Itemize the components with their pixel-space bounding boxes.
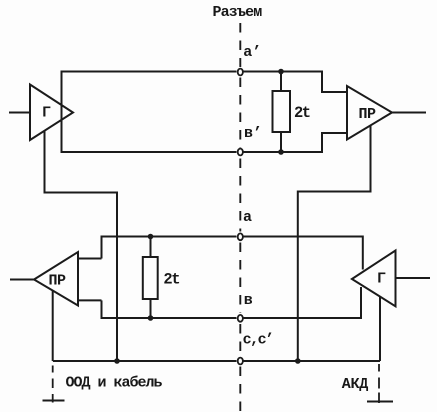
svg-text:Г: Г bbox=[377, 271, 386, 288]
svg-text:ПР: ПР bbox=[49, 273, 67, 290]
svg-text:ООД и кабель: ООД и кабель bbox=[66, 375, 163, 392]
svg-text:АКД: АКД bbox=[342, 376, 368, 393]
svg-text:в’: в’ bbox=[244, 125, 262, 142]
svg-text:Г: Г bbox=[42, 105, 51, 122]
svg-text:2t: 2t bbox=[163, 271, 179, 289]
svg-text:с,с’: с,с’ bbox=[243, 332, 273, 349]
svg-text:а: а bbox=[243, 209, 252, 226]
svg-text:а’: а’ bbox=[243, 44, 261, 61]
svg-text:в: в bbox=[244, 292, 253, 309]
svg-text:Разъем: Разъем bbox=[213, 4, 263, 21]
svg-text:ПР: ПР bbox=[359, 106, 377, 123]
svg-text:2t: 2t bbox=[294, 104, 310, 122]
